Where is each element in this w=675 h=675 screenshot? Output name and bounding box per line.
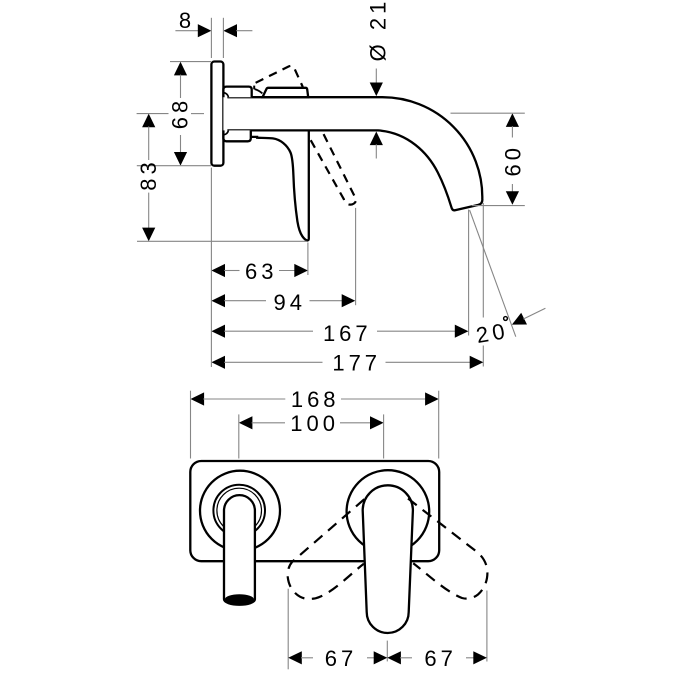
svg-text:167: 167: [323, 321, 372, 346]
svg-text:68: 68: [167, 97, 192, 129]
svg-text:Ø 21: Ø 21: [365, 0, 390, 61]
svg-text:60: 60: [500, 144, 525, 176]
svg-text:67: 67: [424, 646, 456, 671]
svg-text:94: 94: [274, 290, 306, 315]
svg-text:168: 168: [291, 387, 340, 412]
svg-text:67: 67: [325, 646, 357, 671]
svg-text:83: 83: [136, 158, 161, 190]
svg-text:63: 63: [245, 259, 277, 284]
svg-text:100: 100: [290, 411, 339, 436]
svg-text:177: 177: [332, 351, 381, 376]
svg-text:8: 8: [179, 8, 195, 33]
